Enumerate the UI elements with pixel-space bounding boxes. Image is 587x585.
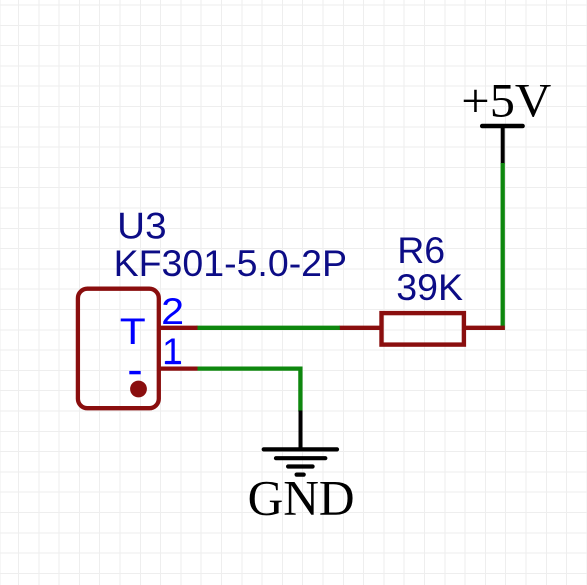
svg-text:T: T (120, 310, 146, 352)
wire U3 pin 1 to GND (198, 369, 301, 412)
svg-text:39K: 39K (396, 266, 463, 308)
ground bar 3 (288, 464, 313, 468)
svg-text:1: 1 (162, 330, 183, 372)
pin 1 dot (130, 381, 147, 398)
pin name "-" (129, 371, 140, 374)
GND lead (299, 411, 303, 451)
+5V bar (482, 124, 522, 129)
wire +5V net to R6 (501, 163, 505, 330)
pin number 1 foot serif (166, 361, 181, 364)
R6 right lead (463, 326, 505, 330)
ground bar 1 (264, 447, 337, 451)
svg-text:KF301-5.0-2P: KF301-5.0-2P (114, 242, 347, 284)
+5V lead (501, 126, 505, 164)
resistor R6 (382, 313, 464, 345)
svg-text:2: 2 (161, 290, 184, 332)
U3 pin 1 stub (159, 366, 198, 370)
svg-text:+5V: +5V (461, 75, 551, 128)
svg-text:U3: U3 (117, 205, 166, 247)
ground bar 2 (276, 456, 325, 460)
wire U3 pin 2 to R6 (197, 326, 340, 330)
svg-text:R6: R6 (397, 229, 445, 271)
ground bar 4 (297, 473, 304, 477)
svg-text:GND: GND (248, 470, 355, 526)
U3 pin 2 stub (159, 326, 198, 330)
R6 left lead (339, 326, 383, 330)
connector U3 body (78, 289, 159, 409)
